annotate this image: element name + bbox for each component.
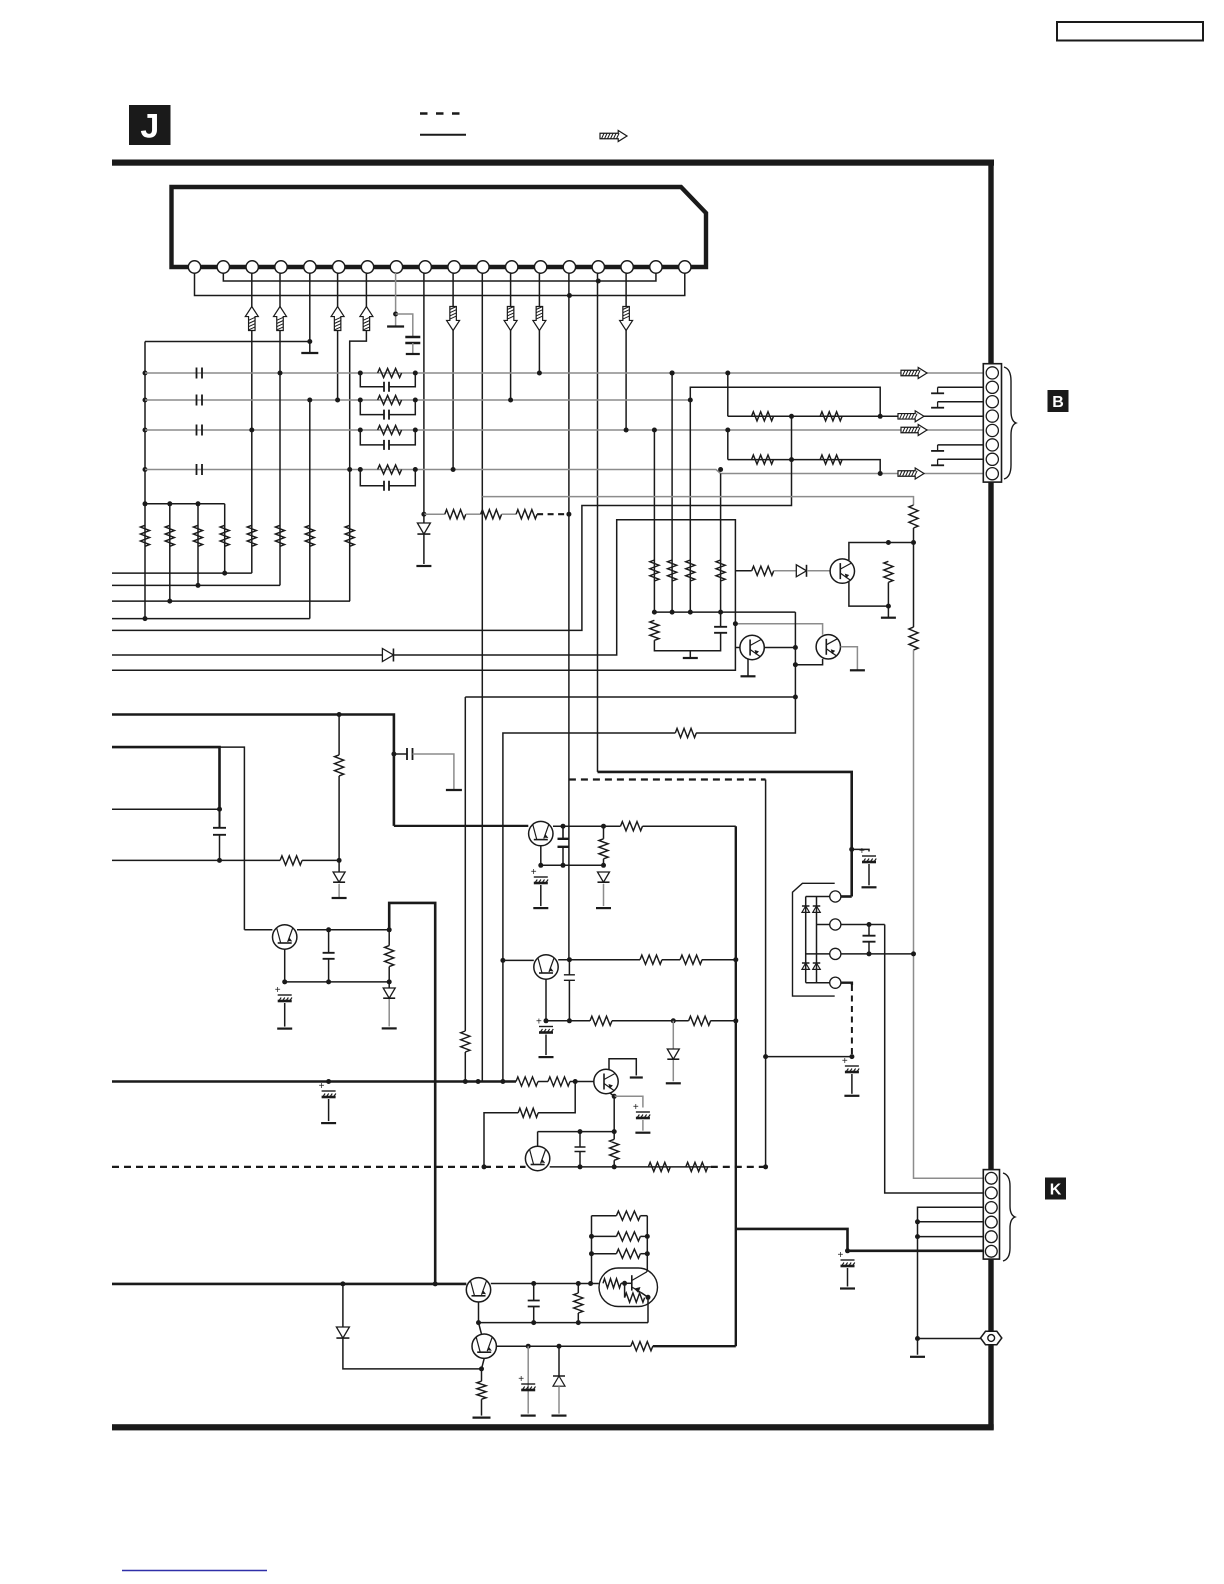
junction bus1/pin15 [596,279,601,284]
pin9 diode lower [423,535,425,565]
junction pin5/341 [307,339,312,344]
motor bottom tie [806,982,830,984]
coupling capacitor row1 [197,368,203,379]
top rule [112,160,994,166]
label K (black box) [1045,1178,1066,1200]
E1 row to riser [643,825,736,827]
F base riser net [538,1082,575,1113]
hatched down arrow pin13 [533,307,546,331]
opto-coupler body [599,1268,658,1307]
junction row3 x727.8 [725,428,730,433]
ground bar x851 [844,1095,859,1097]
junction dash x484 [482,1164,487,1169]
chain C wire3 [807,570,830,572]
resistor x389 lower [388,967,390,988]
resistor y860 [280,856,302,865]
wire pin9 drop [423,273,425,514]
diode x342 [336,1327,349,1338]
capacitor x219 [213,828,226,835]
wire bus to pin5 node [145,341,310,343]
cap x580 lower [579,1152,581,1167]
junction row4/pin10 [451,467,456,472]
hatched arrow to B4 [898,411,924,422]
junction row2 end [688,398,693,403]
B2a collector to riser [764,647,795,649]
bus pins 1-18 [195,273,685,296]
junction riser 664.7 [793,662,798,667]
motor terminal 1 [830,891,841,902]
junction bus y469.5 [143,467,148,472]
bank col2 [169,504,171,601]
drop x720 to cluster [720,474,722,613]
right frame border [988,160,993,1430]
resistor bank x145 [140,525,149,546]
junction opto base [622,1281,627,1286]
cap x533 lower [533,1306,535,1323]
left bus column [144,342,146,619]
bank col6 (pin4 ext) [279,373,281,585]
x339 below diode [338,884,340,898]
connector B pin 3 [986,396,998,408]
resistor below rail1 [650,620,659,640]
Q1 base wire [244,929,272,931]
junction thick y1020 [733,1018,738,1023]
y1020 wire b [612,1020,689,1022]
svg-text:B: B [1052,394,1064,411]
D collector row [491,1283,599,1285]
diode x389 [383,988,395,998]
K3-5 bus [918,1207,984,1355]
chain2 riser from row3 [727,430,729,460]
dashed main wire mid [550,1166,711,1168]
junction y865 x540 [538,863,543,868]
motor c3 wire [841,953,914,955]
trio wire right y1236.4 [640,1235,647,1237]
ground bar x642 [635,1132,650,1134]
B3 stub wire [938,401,984,403]
pin9 chain wire b [466,513,481,515]
junction line3/col2 [167,599,172,604]
junction bus2/pin14 [567,293,572,298]
junction rail x169.8 [167,501,172,506]
ecap x546 lower [545,1035,547,1056]
capacitor x328 [323,953,335,959]
junction y1283.5 x578 [576,1281,581,1286]
zener x603 lower [603,884,605,906]
riser x465 lower [464,1052,466,1082]
resistor row y373 cluster [378,368,402,377]
motor c1 to thick [841,895,852,898]
C emitter R tie [887,582,889,606]
B2 termination [931,387,944,393]
resistor bank x309.8 [305,525,314,546]
wire pin7 drop with jog [350,273,367,470]
junction dash x614 [612,1164,617,1169]
junction K5 branch [915,1234,920,1239]
D emitter [478,1302,480,1323]
cap x580 tie [579,1132,581,1147]
junction x339/y860 [337,858,342,863]
ground bar x540 [533,907,548,909]
wire pin12 drop [510,273,512,400]
wire pin5 drop [309,273,311,353]
motor inner col A [805,897,807,983]
dashed main wire right [711,1166,766,1168]
junction trio right low [645,1251,650,1256]
junction y1081 x328 [326,1079,331,1084]
junction y865 x563 [561,863,566,868]
thick wire y747 + drop [112,747,220,809]
x219 cap tie [219,809,221,828]
wire pin10 drop [452,273,454,470]
transistor Q1 [273,925,297,949]
junction pin8row x880 [878,471,883,476]
B3 termination [931,402,944,408]
diode below pin9 [417,523,430,534]
resistor E2 row A [640,955,662,964]
opto inner resistor2 link [624,1283,626,1297]
right column to K1 [914,954,984,1178]
ground bar x603 [596,907,611,909]
ground bar x481 [473,1416,491,1418]
wire pin8 drop (gray) [395,273,397,327]
thick wire y772 [598,772,852,897]
junction x502 base [500,958,505,963]
branch cap x394 [394,753,407,755]
junction y1081 x502 [500,1079,505,1084]
cap x328 tie [328,930,330,953]
motor terminal 2 [830,919,841,930]
E2 emitter [545,980,547,1021]
junction line2/col3 [196,583,201,588]
B7 stub wire [938,458,984,460]
electrolytic capacitor x847 [838,1250,855,1266]
junction rail1 x654.4 [652,610,657,615]
junction y1322 x478 [476,1320,481,1325]
pin9 chain wire a [424,513,445,515]
resistor dash A [648,1162,670,1171]
IC pin 18 [679,261,691,273]
x559 drop [558,1346,560,1376]
connector K brace [1003,1173,1015,1261]
E1 emitter [540,846,542,865]
resistor row y400 cluster [378,395,402,404]
junction y1283 x342 [340,1281,345,1286]
IC pin 15 [592,261,604,273]
x614 lower [613,1160,615,1167]
junction row3/pin3 [249,428,254,433]
cap x851 lower [851,1074,853,1094]
capacitor x413 [407,748,413,760]
junction y1346 x528 [526,1344,531,1349]
junction rail1 x672.1 [670,610,675,615]
bank col4 [224,504,226,573]
wire y1131.6 [538,1131,615,1133]
terminal bar below cap [406,353,420,355]
connector B pin 6 [986,439,998,451]
junction gray/line7 [733,621,738,626]
cap x533 tie [533,1284,535,1301]
wire y860 to x339 [302,859,339,861]
junction y982 x389 [387,979,392,984]
C collector [849,543,914,561]
x673 gray drop [672,1021,674,1049]
IC pin 14 [563,261,575,273]
cap x563 lower [562,847,564,865]
motor tap c3 [806,953,830,955]
hatched arrow to B8 [898,468,924,479]
junction trio left mid [589,1234,594,1239]
terminal bar pin8 [387,325,404,327]
cluster start dot y400 [358,398,363,403]
cap x569 tie [568,960,570,975]
connector K pin 1 [985,1172,997,1184]
resistor x614 [610,1139,619,1160]
junction riser 697 [793,695,798,700]
chain C wire2 [774,570,797,572]
resistor trio y1253.7 [616,1249,640,1258]
diode x339 [333,872,345,882]
ground bar B2a [741,675,756,677]
resistor x578 tie [577,1284,579,1294]
junction thick x851 y849 [849,847,854,852]
line4 left entry [112,618,310,620]
junction bus y503.8 [143,501,148,506]
junction pin9 chain [421,512,426,517]
resistor E1 row [621,822,643,831]
thick branch to K6 [736,1229,984,1251]
opto emitter exit [641,1293,648,1323]
resistor bank x280 [275,525,284,546]
cluster capacitor y430 [384,440,389,450]
junction chain/pin14 [566,512,571,517]
electrolytic capacitor x540 [531,867,548,883]
resistor chain1 A [752,412,774,421]
resistor y1112 [518,1108,538,1117]
thick wire y1283.9 [112,1283,466,1286]
row1 wire to connector B1 [145,372,984,374]
Q1 collector wire [297,929,389,931]
terminal bar x339 [332,897,347,899]
connector B pin 2 [986,381,998,393]
transistor E [472,1334,496,1358]
cluster cap loop y469.5 [360,470,384,486]
dashed wire y779.5 [569,778,766,780]
resistor right column lower [909,627,918,650]
wire pin11 long drop [481,273,483,1082]
junction trio left low [589,1251,594,1256]
resistor x578 lower [577,1313,579,1323]
opto base link [621,1282,632,1284]
motor c2 wire [841,924,885,926]
resistor E row [631,1342,653,1351]
hatched arrow to B5 [901,425,927,436]
connector K pin 6 [985,1245,997,1257]
zener x559 [553,1376,565,1386]
ground bar x389b [382,1027,397,1029]
medium wire x735.8 [735,826,737,1346]
resistor bank x169.8 [165,525,174,546]
IC pin 16 [621,261,633,273]
capacitor x533 [528,1301,540,1307]
cluster cap loop right y430 [389,430,415,445]
wire y697 [465,696,795,698]
ecap x847 lower [847,1268,849,1287]
pin11 branch to right column [482,497,913,505]
line1 left entry [112,572,252,574]
connector K body [983,1170,999,1260]
thick wire y1081.5 [112,1080,516,1083]
resistor x389 tie [388,930,390,946]
hatched down arrow pin10 [447,307,460,331]
junction row1 start x672 drop [670,371,675,376]
electrolytic capacitor x284 [275,985,292,1001]
junction E1 row x563 [561,824,566,829]
transistor E2 [534,955,558,979]
junction c2/cap [867,922,872,927]
cap top tie [720,612,722,627]
hatched up arrow pin7 [360,307,373,331]
x342 below diode [343,1339,482,1369]
cluster capacitor y469.5 [384,481,389,491]
connector B brace [1004,367,1016,479]
coupling capacitor row2 [197,395,203,406]
junction y865 x603 [601,863,606,868]
junction y1020 x673 [671,1018,676,1023]
terminal bar pin5 [301,352,318,354]
B7 termination [931,459,944,465]
resistor x389 [385,946,394,967]
gray wire cap to ground [413,754,454,790]
coupling capacitor row4 [197,464,203,475]
motor tap c2 [817,924,830,926]
pin9 chain wire c [502,513,516,515]
B2a emitter [747,659,749,676]
svg-text:K: K [1050,1182,1062,1199]
trio left rail [591,1216,593,1284]
junction y1283.5 x590 [588,1281,593,1286]
resistor bank x224.7 [220,525,229,546]
y1020 wire c [710,1020,735,1022]
chain1 wire [728,415,984,417]
ground bar x284 [277,1027,292,1029]
capacitor mid-cluster [714,627,727,633]
transistor B2b [816,635,840,659]
junction row1/pin4 [278,371,283,376]
resistor y1020 A [590,1016,612,1025]
junction F base node [573,1079,578,1084]
junction C rail x888 [886,540,891,545]
ecap x284 lower [284,1003,286,1027]
cap x328 lower [328,958,330,982]
junction Q1 row x328 [326,927,331,932]
wire cap to bar [412,343,414,354]
IC pin 6 [333,261,345,273]
junction y1346 x559 [557,1344,562,1349]
E2 collector row [558,959,640,961]
IC pin 8 [390,261,402,273]
junction y982 x328 [326,979,331,984]
resistor E2 row B [680,955,702,964]
pin11 bottom tie [478,1081,482,1083]
junction trio right mid [645,1234,650,1239]
junction chain2 mid [789,457,794,462]
Q1 emitter [284,950,286,982]
junction hex branch [915,1336,920,1341]
electrolytic capacitor x546 [536,1017,553,1033]
mid-cluster rail1 [654,611,795,613]
junction y1322 x578 [576,1320,581,1325]
y1081 wire to F [570,1081,594,1083]
cap x563 tie [562,826,564,839]
resistor x603 [599,839,608,859]
junction rail1 x690.3 [688,610,693,615]
diode x673 [667,1049,679,1059]
cap tie x869 [852,849,869,851]
E1 base thick wire [394,825,528,827]
junction y1283 x435 [433,1281,438,1286]
diode on line6 [382,649,393,662]
x481 lower [481,1399,483,1415]
IC pin 7 [361,261,373,273]
IC pin 12 [506,261,518,273]
ground bar C [881,617,896,619]
node pin8 [393,312,398,317]
trio wire left y1253.7 [592,1253,617,1255]
E2 base wire [503,959,534,961]
resistor bank x198 [193,525,202,546]
riser row2 to chain1 [690,387,880,416]
wire pin14 long drop [568,273,570,960]
resistor inside opto [603,1279,621,1288]
electrolytic capacitor x528 [518,1374,535,1390]
wire y981.9 [285,981,390,983]
ground bar x559 [552,1414,567,1416]
ecap x540 lower [540,885,542,906]
resistor pin9 chain C [516,510,537,519]
line3 left entry [112,600,350,602]
electrolytic capacitor x851 [842,1056,859,1072]
wire y1056 [766,1056,852,1058]
resistor y1081 A [516,1077,538,1086]
row2 wire [145,399,690,401]
wire pin16 drop [625,273,627,430]
resistor row y469.5 cluster [378,465,402,474]
cluster start dot y469.5 [358,467,363,472]
x528 drop [527,1346,529,1392]
connector B pin 5 [986,424,998,436]
junction E1 row x603 [601,824,606,829]
B2a base [735,647,740,649]
hatched up arrow pin3 [245,307,258,331]
branch y747 to x244 riser [220,747,245,930]
hatched up arrow pin6 [331,307,344,331]
motor terminal 4 [830,977,841,988]
F gray branch [614,1096,643,1107]
B2 stub wire [938,386,984,388]
x559 lower [558,1386,560,1413]
junction rail x198 [196,501,201,506]
legend solid line sample [420,134,466,136]
connector B body [983,364,1001,482]
junction row3/pin16 [624,428,629,433]
junction C emitter [886,604,891,609]
ecap x642 lower [642,1120,644,1131]
transistor F [594,1069,618,1093]
line6 diode line [112,654,382,656]
junction row4 x350 [347,467,352,472]
K4 wire [918,1221,984,1223]
